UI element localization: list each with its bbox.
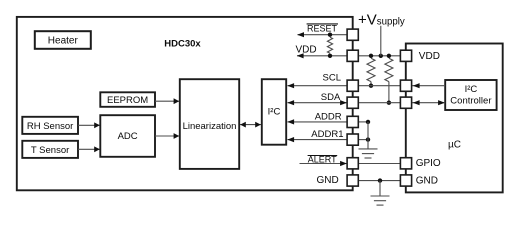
svg-text:SCL: SCL xyxy=(323,73,341,84)
svg-text:GPIO: GPIO xyxy=(416,158,441,169)
svg-text:ADDR: ADDR xyxy=(315,111,342,122)
svg-text:I²C: I²C xyxy=(465,84,478,95)
svg-text:Heater: Heater xyxy=(48,35,79,46)
svg-text:RESET: RESET xyxy=(307,24,338,34)
svg-text:SDA: SDA xyxy=(321,92,341,103)
svg-text:µC: µC xyxy=(448,139,461,150)
svg-text:T Sensor: T Sensor xyxy=(31,145,69,156)
svg-text:ADC: ADC xyxy=(118,131,138,142)
svg-text:Controller: Controller xyxy=(450,96,491,107)
svg-text:VDD: VDD xyxy=(419,51,440,62)
svg-text:VDD: VDD xyxy=(296,44,317,55)
svg-text:ALERT: ALERT xyxy=(308,155,337,165)
svg-text:GND: GND xyxy=(416,176,438,187)
svg-text:ADDR1: ADDR1 xyxy=(311,129,343,140)
svg-text:I²C: I²C xyxy=(268,107,281,118)
svg-text:HDC30x: HDC30x xyxy=(164,38,201,49)
svg-text:Linearization: Linearization xyxy=(183,121,237,132)
svg-text:GND: GND xyxy=(317,175,339,186)
svg-text:EEPROM: EEPROM xyxy=(107,95,148,106)
svg-text:RH Sensor: RH Sensor xyxy=(27,121,73,132)
